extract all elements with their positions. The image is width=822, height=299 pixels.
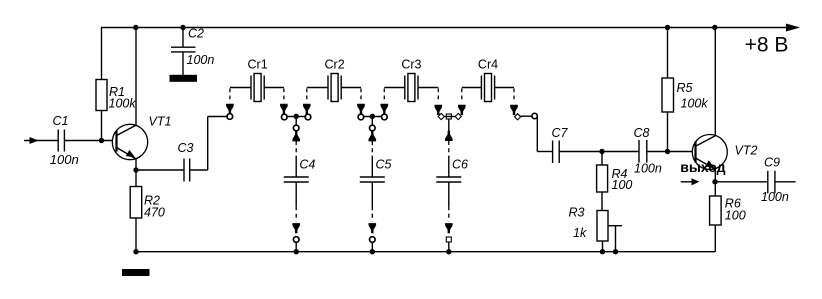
svg-text:Cr3: Cr3 bbox=[401, 58, 421, 72]
svg-text:R3: R3 bbox=[569, 206, 585, 220]
svg-text:C5: C5 bbox=[376, 158, 392, 172]
svg-text:Cr4: Cr4 bbox=[478, 58, 498, 72]
svg-text:C3: C3 bbox=[178, 141, 194, 155]
svg-text:C7: C7 bbox=[552, 126, 569, 140]
svg-text:C6: C6 bbox=[452, 158, 468, 172]
svg-text:100n: 100n bbox=[761, 190, 789, 204]
svg-text:100k: 100k bbox=[109, 97, 137, 111]
svg-text:100: 100 bbox=[612, 178, 633, 192]
svg-text:100n: 100n bbox=[634, 162, 662, 176]
svg-text:R5: R5 bbox=[677, 81, 693, 95]
svg-text:100k: 100k bbox=[681, 97, 709, 111]
svg-text:+8 В: +8 В bbox=[745, 33, 789, 56]
svg-text:C2: C2 bbox=[188, 27, 204, 41]
svg-text:100: 100 bbox=[725, 209, 746, 223]
svg-text:VT1: VT1 bbox=[149, 115, 172, 129]
svg-text:100n: 100n bbox=[50, 152, 79, 167]
svg-text:выход: выход bbox=[680, 159, 725, 175]
svg-text:C8: C8 bbox=[634, 126, 650, 140]
svg-text:100n: 100n bbox=[187, 53, 215, 67]
svg-text:C9: C9 bbox=[764, 156, 780, 170]
svg-text:1k: 1k bbox=[573, 226, 587, 240]
svg-text:470: 470 bbox=[144, 205, 165, 219]
svg-text:Cr2: Cr2 bbox=[325, 58, 345, 72]
svg-text:Cr1: Cr1 bbox=[248, 58, 268, 72]
svg-text:VT2: VT2 bbox=[735, 144, 758, 158]
svg-text:C4: C4 bbox=[299, 158, 315, 172]
svg-text:C1: C1 bbox=[53, 114, 69, 128]
